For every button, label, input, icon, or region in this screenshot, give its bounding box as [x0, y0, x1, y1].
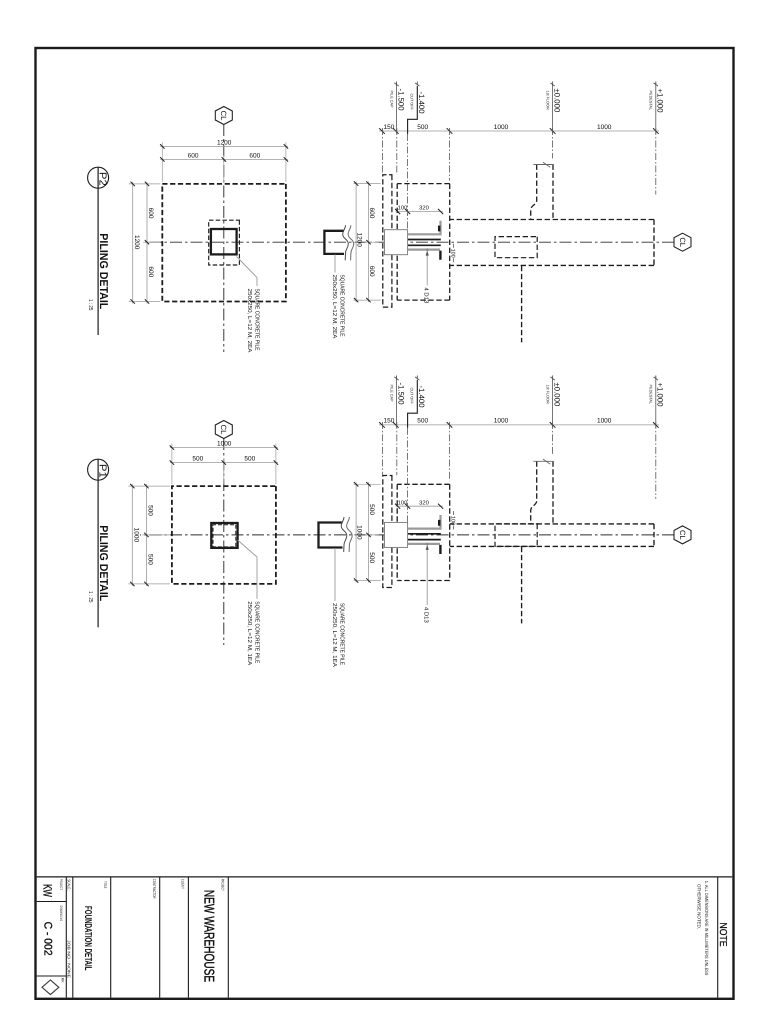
svg-text:NEW WAREHOUSE: NEW WAREHOUSE: [201, 890, 217, 982]
plan dim total bottom P1: [131, 484, 133, 586]
svg-text:CL: CL: [678, 237, 687, 247]
svg-text:PILING DETAIL: PILING DETAIL: [97, 233, 109, 309]
embedded pile at cutoff P2: [385, 230, 408, 255]
slab end break tick P1: [543, 459, 550, 464]
svg-text:PROJECT: PROJECT: [220, 879, 224, 891]
plan dim ticks hb P1: [144, 484, 148, 488]
slab end break tick P2: [543, 162, 550, 167]
plan dim ticks total P1: [274, 445, 278, 449]
svg-text:500: 500: [368, 552, 375, 563]
plan dim ticks halves P2: [284, 157, 288, 161]
plan dim ticks halves P1: [274, 460, 278, 464]
cutoff level line P1: [407, 428, 409, 522]
svg-text:+1.000: +1.000: [656, 89, 665, 114]
detail title line P1: [97, 460, 99, 628]
chain tick P2: [393, 128, 399, 134]
svg-text:CUT OFF: CUT OFF: [410, 94, 414, 111]
pile cap bottom P2: [396, 184, 398, 301]
plan pile cap outline P2: [162, 184, 286, 302]
floor slab top P1: [552, 461, 554, 524]
arrow 4 D13 P1: [426, 545, 429, 550]
grade line P1: [521, 547, 523, 624]
elevation dim chain P2: [379, 130, 659, 132]
chain tick P2: [379, 128, 385, 134]
svg-text:CL: CL: [678, 530, 687, 540]
embedded pile at cutoff P1: [385, 522, 408, 547]
svg-text:600: 600: [249, 152, 260, 159]
dim line cap halves P1: [368, 482, 370, 582]
pile break squiggle 1 P2: [343, 225, 349, 260]
elevation -1.500 pile cap P1: [396, 378, 398, 428]
dim ticks cap halves P2: [366, 181, 370, 185]
plan dim ticks total P2: [284, 144, 288, 148]
level ext 0.000 P1: [552, 422, 554, 455]
svg-text:SQUARE CONCRETE PILE: SQUARE CONCRETE PILE: [338, 603, 345, 665]
svg-text:1000: 1000: [597, 124, 612, 131]
svg-text:250x250, L=12 M, 2EA: 250x250, L=12 M, 2EA: [246, 289, 253, 353]
arrow 4 D13 P2: [426, 251, 429, 256]
svg-text:100: 100: [398, 499, 408, 506]
dim 100 dashdot b P2: [453, 258, 455, 263]
detail bubble P1: [88, 459, 109, 480]
elevation dim chain P1: [379, 424, 659, 426]
pile cap top P2: [449, 184, 451, 301]
pedestal right edge P1: [450, 545, 654, 547]
svg-text:600: 600: [188, 152, 199, 159]
pile stub P1: [319, 523, 343, 548]
plan dim halves bottom P1: [145, 484, 147, 586]
svg-text:1st FLOOR: 1st FLOOR: [545, 91, 549, 110]
revision diamond: [42, 980, 59, 995]
lean concrete P2: [383, 175, 392, 307]
pile cap side left P2: [397, 183, 450, 185]
note underline: [717, 877, 719, 998]
svg-text:-1.400: -1.400: [417, 92, 426, 115]
svg-text:CLIENT: CLIENT: [181, 879, 185, 889]
svg-text:1st FLOOR: 1st FLOOR: [545, 385, 549, 404]
grid bubble CL left P2: [215, 107, 232, 125]
grade line P2: [521, 266, 523, 343]
floor slab end cap P2: [533, 164, 553, 166]
svg-text:KW: KW: [41, 884, 55, 897]
level ext -1.650 P2: [382, 128, 384, 175]
svg-text:500: 500: [368, 504, 375, 515]
pile stub P2: [324, 231, 344, 254]
centerline horizontal plan P1: [223, 438, 225, 645]
elevation -1.500 pile cap P2: [396, 84, 398, 134]
dowel bar 4 P1: [408, 543, 440, 545]
svg-text:-1.500: -1.500: [396, 89, 405, 112]
svg-text:±0.000: ±0.000: [552, 89, 561, 113]
grid bubble CL left P1: [215, 421, 232, 439]
svg-text:PEDESTAL: PEDESTAL: [649, 385, 653, 405]
svg-text:NOTE: NOTE: [717, 923, 728, 947]
dowel hook plate right P1: [439, 545, 441, 554]
svg-text:PILE CAP: PILE CAP: [389, 385, 393, 403]
svg-text:PEDESTAL: PEDESTAL: [649, 91, 653, 111]
pile cap side left P1: [397, 483, 450, 485]
plan dim total vert P2: [160, 145, 288, 147]
pedestal top edge P1: [653, 524, 655, 547]
svg-text:P2: P2: [97, 172, 108, 186]
svg-text:4 D13: 4 D13: [423, 607, 430, 623]
dim ticks cap halves P1: [366, 482, 370, 486]
pile cap top P1: [449, 484, 451, 580]
dowel bar hooked left P1: [408, 515, 441, 529]
svg-text:-1.400: -1.400: [417, 386, 426, 409]
plan dim ticks tb P2: [131, 182, 135, 186]
dowel bar 3 P2: [408, 244, 441, 246]
level ext -1.650 P1: [382, 422, 384, 475]
lean concrete P1: [383, 476, 392, 588]
title row line title: [110, 877, 112, 998]
svg-text:PILE CAP: PILE CAP: [389, 91, 393, 109]
svg-text:1200: 1200: [355, 232, 362, 247]
cell divider kw: [37, 901, 67, 903]
plan dim ticks tb P1: [130, 484, 134, 488]
svg-text:500: 500: [417, 418, 428, 425]
pedestal right edge P2: [450, 264, 654, 266]
svg-text:500: 500: [147, 554, 154, 565]
svg-text:PROJECT: PROJECT: [59, 879, 63, 891]
dim 100 dashdot a P2: [453, 244, 455, 249]
title row line project: [227, 877, 229, 998]
plan ext lines left P1: [275, 444, 277, 485]
pile cap bottom P1: [396, 484, 398, 580]
svg-text:±0.000: ±0.000: [552, 383, 561, 407]
dim line cap halves P2: [368, 182, 370, 303]
pile break squiggle 2 P1: [347, 517, 353, 552]
svg-text:1000: 1000: [494, 124, 509, 131]
svg-text:SQUARE CONCRETE PILE: SQUARE CONCRETE PILE: [253, 289, 260, 351]
dim line cap total P1: [355, 482, 357, 582]
dowel hook plate left P1: [438, 520, 440, 526]
leader 4 D13 P1: [426, 544, 428, 605]
dowel bar 3 P1: [408, 539, 441, 541]
svg-text:320: 320: [419, 499, 429, 506]
leader pile label plan P2: [237, 257, 258, 287]
floor slab bottom with step P1: [531, 461, 537, 524]
svg-text:CL: CL: [219, 111, 228, 121]
plan pile hidden inner P1: [213, 525, 236, 547]
plan pedestal hidden P2: [209, 220, 240, 265]
plan dim total bottom P2: [132, 182, 134, 304]
title block divider: [37, 876, 733, 878]
pile break squiggle 2 P2: [348, 225, 354, 260]
level ext 0.000 P2: [552, 128, 554, 159]
dowel bar 4 P2: [408, 249, 440, 251]
svg-text:FOUNDATION DETAIL: FOUNDATION DETAIL: [82, 906, 93, 971]
svg-text:320: 320: [419, 205, 429, 212]
svg-text:+1.000: +1.000: [656, 383, 665, 408]
chain tick P1: [550, 422, 556, 428]
dim line cap total P2: [355, 182, 357, 303]
leader dot 4 D13 P2: [426, 248, 429, 251]
floor slab bottom with step P2: [531, 165, 537, 220]
svg-text:P1: P1: [97, 464, 108, 478]
dim ticks cap total P2: [354, 181, 358, 185]
grid bubble CL top P2: [674, 233, 691, 251]
svg-text:SQUARE CONCRETE PILE: SQUARE CONCRETE PILE: [253, 601, 260, 663]
plan pile outline P1: [211, 523, 237, 548]
svg-text:250x250, L=12 M, 2EA: 250x250, L=12 M, 2EA: [331, 275, 338, 339]
svg-text:150: 150: [383, 418, 394, 425]
svg-text:1000: 1000: [355, 525, 362, 540]
leader pile label section P1: [334, 548, 336, 601]
svg-text:500: 500: [417, 124, 428, 131]
plan pile cap outline P1: [172, 486, 276, 584]
leader pile label section P2: [334, 254, 336, 272]
title row line scale: [72, 877, 74, 998]
leader pile label plan P1: [238, 540, 257, 599]
title row line bottom: [65, 877, 67, 998]
svg-text:500: 500: [192, 456, 203, 463]
svg-text:100: 100: [449, 249, 455, 258]
level ext +1.000 P1: [655, 422, 657, 499]
plan pile outline P2: [211, 229, 237, 254]
svg-text:250x250, L=12 M, 1EA: 250x250, L=12 M, 1EA: [246, 601, 253, 665]
svg-text:600: 600: [368, 207, 375, 218]
plan ext lines bottom P1: [128, 485, 170, 487]
pedestal left edge P2: [450, 219, 654, 221]
dim tick P2: [395, 209, 400, 214]
svg-text:250x250, L=12 M, 1EA: 250x250, L=12 M, 1EA: [331, 603, 338, 667]
svg-text:100: 100: [449, 516, 455, 525]
level ext -1.500 P2: [396, 128, 398, 175]
svg-text:CONTRACTOR: CONTRACTOR: [152, 879, 156, 899]
title row line client: [187, 877, 189, 998]
plan dim ticks hb P2: [145, 182, 149, 186]
dowel bar hooked left P2: [408, 221, 441, 235]
leader 4 D13 P2: [426, 250, 428, 286]
chain tick P1: [393, 422, 399, 428]
level ext +1.000 P2: [655, 128, 657, 195]
svg-text:SCALE :: SCALE :: [66, 879, 71, 891]
plan dim halves vert P1: [170, 462, 278, 464]
svg-text:600: 600: [147, 208, 154, 219]
svg-text:4 D13: 4 D13: [423, 288, 430, 304]
svg-text:1000: 1000: [133, 528, 140, 543]
svg-text:600: 600: [368, 266, 375, 277]
pile break squiggle 1 P1: [341, 517, 347, 552]
svg-text:1000: 1000: [217, 441, 232, 448]
svg-text:1 : 25: 1 : 25: [87, 299, 94, 311]
plan ext lines left P2: [285, 142, 287, 182]
ext lines cap dim P1: [354, 483, 381, 485]
dowel bar 2 P2: [408, 239, 441, 241]
svg-text:150: 150: [383, 124, 394, 131]
pedestal top edge P2: [653, 220, 655, 266]
svg-text:1000: 1000: [494, 418, 509, 425]
detail bubble P2: [88, 167, 109, 188]
elevation -1.400 cut off P1: [408, 380, 418, 428]
svg-text:SQUARE CONCRETE PILE: SQUARE CONCRETE PILE: [338, 275, 345, 337]
elevation 0.000 first floor P2: [552, 84, 554, 134]
leader dot 4 D13 P1: [426, 543, 429, 546]
pedestal left edge P1: [450, 523, 654, 525]
svg-text:1. ALL DIMENSIONS ARE IN MILLI: 1. ALL DIMENSIONS ARE IN MILLIMETERS UNL…: [704, 881, 709, 976]
svg-text:OTHERWISE NOTED.: OTHERWISE NOTED.: [697, 884, 702, 929]
dim ticks cap total P1: [354, 482, 358, 486]
svg-text:JOB NO : NONE: JOB NO : NONE: [66, 940, 71, 978]
dim line 100-320 P2: [396, 211, 443, 213]
detail title line P2: [97, 168, 99, 336]
level ext cap top P2: [449, 128, 451, 181]
chain tick P2: [550, 128, 556, 134]
cell divider dwg: [37, 975, 67, 977]
elevation -1.400 cut off P2: [408, 86, 418, 134]
column stub hidden outline P1: [495, 524, 537, 547]
svg-text:PILING DETAIL: PILING DETAIL: [97, 525, 109, 601]
level ext -1.500 P1: [396, 422, 398, 475]
svg-text:-1.500: -1.500: [396, 383, 405, 406]
elevation +1.000 pedestal P1: [655, 378, 657, 428]
dowel hook plate left P2: [438, 226, 440, 232]
svg-text:1200: 1200: [133, 235, 140, 250]
pile cap side right P2: [397, 299, 450, 301]
plan ext lines bottom P2: [129, 183, 161, 185]
svg-text:100: 100: [398, 205, 408, 212]
cutoff level line P2: [407, 134, 409, 229]
svg-text:500: 500: [244, 456, 255, 463]
level ext cap top P1: [449, 422, 451, 481]
centerline vertical P1: [140, 534, 674, 536]
plan dim halves bottom P2: [146, 182, 148, 304]
chain tick P1: [653, 422, 659, 428]
svg-text:C - 002: C - 002: [41, 922, 53, 956]
centerline horizontal plan P2: [223, 124, 225, 352]
svg-text:DRAWING NO: DRAWING NO: [59, 906, 63, 922]
grid bubble CL top P1: [674, 526, 691, 544]
dowel hook plate right P2: [439, 251, 441, 260]
svg-text:1000: 1000: [597, 418, 612, 425]
column stub hidden outline P2: [495, 237, 537, 258]
dowel bar 2 P1: [408, 533, 441, 535]
svg-text:500: 500: [147, 505, 154, 516]
dim 100 dashdot a P1: [453, 511, 455, 516]
floor slab top P2: [552, 165, 554, 220]
svg-text:TITLE: TITLE: [103, 881, 107, 888]
svg-text:1200: 1200: [217, 139, 232, 146]
elevation 0.000 first floor P1: [552, 378, 554, 428]
plan dim halves vert P2: [160, 158, 288, 160]
centerline vertical P2: [145, 241, 674, 243]
svg-text:RK: RK: [61, 978, 65, 984]
chain tick P1: [447, 422, 453, 428]
svg-text:600: 600: [147, 266, 154, 277]
plan dim total vert P1: [170, 447, 278, 449]
pile cap side right P1: [397, 580, 450, 582]
dim tick P1: [395, 504, 400, 509]
title row line contractor: [159, 877, 161, 998]
chain tick P1: [379, 422, 385, 428]
chain tick P2: [653, 128, 659, 134]
floor slab end cap P1: [533, 460, 553, 462]
svg-text:CUT OFF: CUT OFF: [410, 388, 414, 405]
ext lines cap dim P2: [354, 183, 381, 185]
chain tick P2: [447, 128, 453, 134]
dim 100 dashdot b P1: [453, 526, 455, 531]
svg-text:1 : 25: 1 : 25: [87, 591, 94, 603]
elevation +1.000 pedestal P2: [655, 84, 657, 134]
svg-text:CL: CL: [219, 425, 228, 435]
dim line 100-320 P1: [396, 505, 443, 507]
